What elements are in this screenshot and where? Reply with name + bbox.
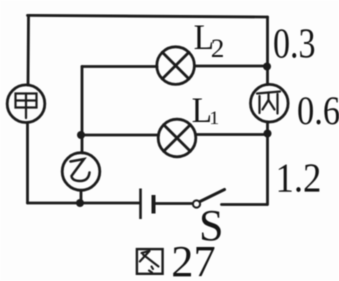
wire branch L1 left (81, 134, 159, 137)
meter Yi (乙) (62, 153, 100, 191)
svg-text:0.3: 0.3 (273, 21, 316, 67)
wire bottom left (28, 202, 140, 205)
meter Bing (丙) (250, 84, 288, 122)
svg-text:0.6: 0.6 (297, 90, 339, 134)
wire branch L2 right (195, 65, 268, 68)
svg-text:1.2: 1.2 (276, 156, 322, 201)
caption character Tu (图) (137, 249, 163, 274)
node junction L2-right (263, 63, 271, 71)
meter Jia (甲) (7, 85, 45, 123)
svg-text:2: 2 (211, 34, 225, 63)
switch S (193, 190, 225, 208)
wire switch to right corner (222, 203, 268, 206)
svg-text:1: 1 (209, 108, 219, 128)
wire left vertical lower (26, 123, 29, 204)
lamp L2 (157, 47, 195, 85)
wire branch L2 left (82, 65, 157, 68)
label L1 (192, 90, 220, 130)
node junction L1-left (77, 131, 85, 139)
wire right vertical lower (266, 122, 269, 205)
wire top (28, 15, 268, 17)
wire right vertical upper (266, 17, 269, 85)
lamp L1 (158, 119, 196, 157)
svg-text:27: 27 (171, 237, 215, 281)
battery (141, 189, 154, 220)
wire Yi meter to bottom (80, 190, 83, 203)
wire battery to switch (156, 202, 193, 205)
node junction L1-right (264, 130, 272, 138)
label L2 (194, 17, 225, 63)
wire branch L1 right (196, 133, 268, 136)
wire left vertical upper (27, 15, 30, 85)
node junction Yi-bottom (76, 199, 84, 207)
wire inner-left vertical (81, 67, 84, 153)
